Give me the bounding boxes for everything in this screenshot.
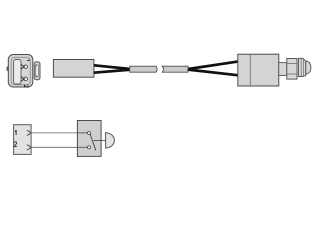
connector J1 shell bbox=[8, 55, 33, 88]
schematic pin box bbox=[14, 125, 32, 155]
connector J1 label 2 bbox=[24, 85, 28, 88]
connector J1 latch notch top bbox=[35, 65, 37, 67]
wire W1 top lead bbox=[94, 65, 130, 69]
connector J1 chevron contact top bbox=[21, 64, 25, 69]
schematic wire pin1 bbox=[31, 132, 87, 134]
connector J1 pin 1 circle bbox=[24, 65, 28, 69]
cable sleeve left segment bbox=[130, 66, 157, 72]
schematic diaphragm dome bbox=[106, 133, 115, 148]
connector J1 inner face bbox=[11, 57, 30, 84]
connector J1 label 1 bbox=[27, 59, 30, 62]
pressure switch S1 tip cap bbox=[306, 61, 311, 74]
pressure switch S1 neck bbox=[279, 63, 287, 76]
schematic switch contact top bbox=[88, 132, 91, 135]
connector J1 cavity slot bbox=[14, 60, 21, 85]
pressure switch S1 hex flat line upper bbox=[287, 63, 297, 65]
pressure switch S1 threaded cone bbox=[298, 58, 305, 76]
cable sleeve right segment bbox=[162, 66, 188, 72]
pressure switch S1 thread mark 2 bbox=[302, 59, 304, 77]
connector J1 latch slot bbox=[36, 65, 39, 77]
schematic pin label 2 bbox=[14, 142, 17, 147]
schematic switch box bbox=[77, 121, 101, 157]
connector J1 latch bbox=[34, 62, 40, 80]
schematic wire pin1 inside box bbox=[77, 132, 87, 134]
schematic wire pin2 inside box bbox=[77, 146, 87, 148]
schematic actuator link bbox=[93, 140, 105, 142]
connector J1 chevron contact bottom bbox=[21, 76, 25, 81]
wire W2 bottom lead bbox=[188, 70, 238, 76]
schematic switch contact bottom bbox=[88, 146, 91, 149]
schematic switch blade bbox=[90, 134, 96, 150]
overmold block W1 bbox=[53, 60, 94, 78]
schematic wire pin2 bbox=[31, 146, 87, 148]
connector J1 side bump bbox=[7, 66, 12, 71]
pressure switch S1 body seam bbox=[249, 54, 251, 85]
pressure switch S1 thread mark 1 bbox=[300, 58, 302, 76]
connector J1 latch notch bottom bbox=[35, 75, 37, 77]
schematic contact chevron 2 bbox=[27, 145, 31, 150]
wire W2 top lead bbox=[188, 61, 238, 69]
schematic contact chevron 1 bbox=[27, 130, 31, 135]
schematic pin label 1 bbox=[15, 130, 16, 135]
wire W1 bottom lead bbox=[94, 70, 130, 73]
connector J1 pin 2 circle bbox=[24, 77, 28, 81]
pressure switch S1 hex flat line lower bbox=[287, 73, 297, 75]
pressure switch S1 body bbox=[238, 54, 279, 86]
pressure switch S1 hex nut bbox=[287, 59, 297, 80]
